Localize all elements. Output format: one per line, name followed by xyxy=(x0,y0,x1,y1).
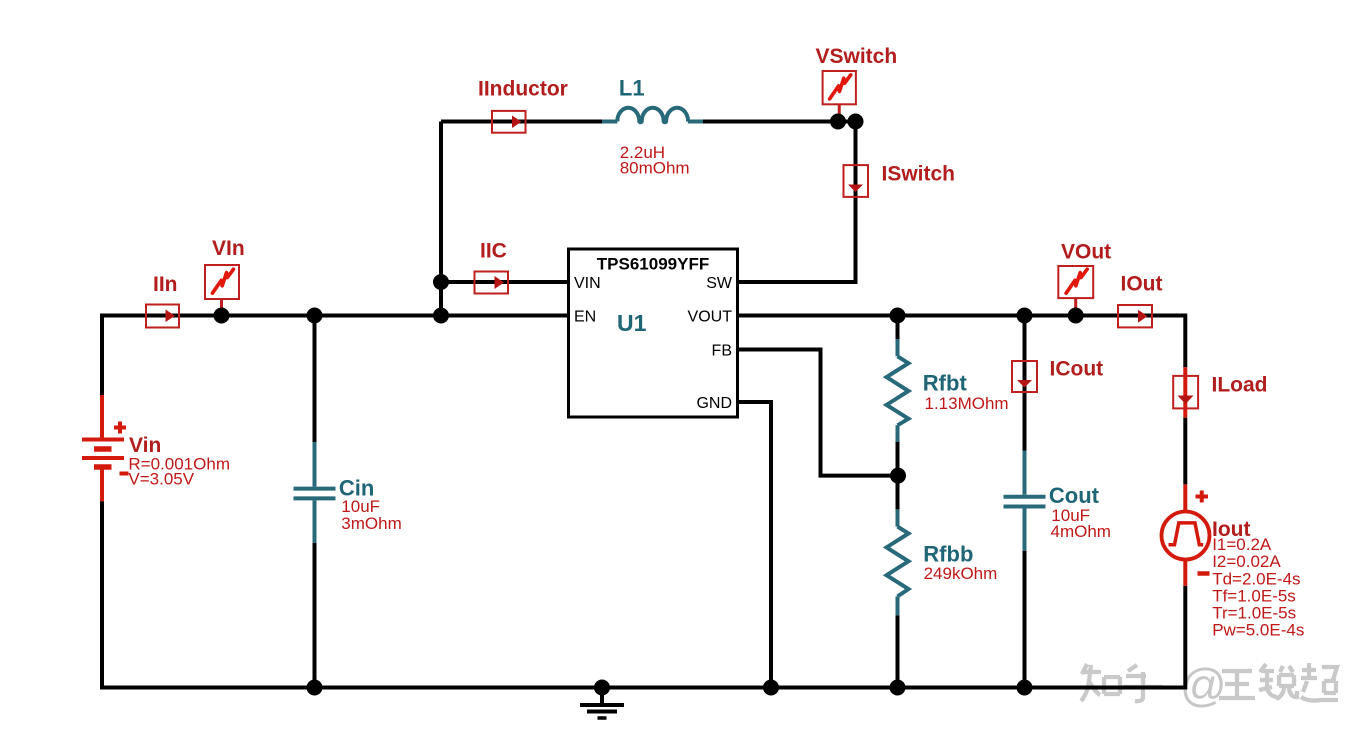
svg-text:ILoad: ILoad xyxy=(1212,374,1268,397)
capacitor Cout teal leads xyxy=(1023,451,1027,552)
wire: Rfbb leads black xyxy=(896,476,900,688)
probe IInductor box xyxy=(492,111,526,133)
capacitor Cin plates xyxy=(294,489,336,499)
wire: load branch mid segment xyxy=(1183,418,1187,485)
current source Iout circle xyxy=(1162,512,1210,560)
probe VIn box xyxy=(205,265,239,299)
svg-text:IOut: IOut xyxy=(1121,273,1163,296)
probe IIn arrow xyxy=(166,310,176,323)
capacitor Cout plates xyxy=(1004,497,1046,507)
probe ILoad arrow head xyxy=(1178,396,1194,405)
svg-text:4mOhm: 4mOhm xyxy=(1051,522,1111,541)
svg-text:FB: FB xyxy=(712,343,732,360)
probe VOut stub xyxy=(1074,298,1077,315)
Iout plus sign xyxy=(1196,491,1209,503)
probe IOut box xyxy=(1118,305,1152,327)
wire: VOUT rail to load corner xyxy=(738,316,1186,368)
svg-text:IInductor: IInductor xyxy=(478,78,568,101)
node Cout bottom xyxy=(1017,680,1033,696)
current source Iout pulse symbol xyxy=(1169,523,1204,545)
probe VIn icon xyxy=(212,269,233,293)
node GND return xyxy=(763,680,779,696)
probe IOut arrow xyxy=(1138,310,1148,323)
probe VOut box xyxy=(1058,266,1093,298)
svg-text:ISwitch: ISwitch xyxy=(882,163,956,186)
svg-text:IIn: IIn xyxy=(153,273,178,296)
probe ILoad red wire segment xyxy=(1183,367,1187,417)
node VOut tap xyxy=(1068,308,1084,324)
probe ICout arrow xyxy=(1017,380,1032,388)
resistor Rfbt leads xyxy=(896,339,900,442)
wire: VIN branch through IIC xyxy=(441,280,569,284)
svg-text:80mOhm: 80mOhm xyxy=(620,159,690,178)
capacitor Cin teal leads xyxy=(313,442,317,543)
wire: top rail right + SW drop xyxy=(703,122,856,283)
wire: Cout branch black xyxy=(1023,316,1027,688)
node Cin top xyxy=(307,308,323,324)
svg-text:V=3.05V: V=3.05V xyxy=(128,470,194,489)
wire: GND pin to bottom rail xyxy=(738,402,772,688)
inductor L1 leads xyxy=(602,120,703,124)
node VSwitch tap xyxy=(830,114,846,130)
wire: vertical from inductor input down to EN rail xyxy=(439,122,443,316)
battery minus sign xyxy=(120,472,129,476)
svg-text:Rfbb: Rfbb xyxy=(923,542,973,567)
wire: FB to feedback node xyxy=(738,350,899,476)
svg-text:VOUT: VOUT xyxy=(688,309,733,326)
resistor Rfbb zigzag xyxy=(887,527,909,597)
probe IIn box xyxy=(146,305,179,328)
node Cout top xyxy=(1017,308,1033,324)
svg-text:U1: U1 xyxy=(617,310,647,336)
battery Vin plates xyxy=(82,440,124,468)
svg-text:1.13MOhm: 1.13MOhm xyxy=(925,394,1009,413)
current source Iout leads red xyxy=(1183,484,1187,585)
node VIn tap xyxy=(214,308,230,324)
inductor L1 coil xyxy=(617,108,688,123)
probe VSwitch stub xyxy=(838,104,841,121)
wire: top rail left segment xyxy=(441,120,602,124)
svg-text:Cout: Cout xyxy=(1049,483,1100,508)
probe ISwitch box xyxy=(844,165,869,197)
svg-text:I2=0.02A: I2=0.02A xyxy=(1212,552,1281,571)
svg-text:Pw=5.0E-4s: Pw=5.0E-4s xyxy=(1212,621,1304,640)
svg-text:249kOhm: 249kOhm xyxy=(924,564,998,583)
svg-text:L1: L1 xyxy=(619,76,645,101)
probe VOut icon xyxy=(1066,269,1087,293)
battery plus sign xyxy=(114,422,126,434)
node ground tap xyxy=(594,680,610,696)
resistor Rfbb leads xyxy=(896,509,900,615)
probe VSwitch box xyxy=(823,71,856,104)
node junction dots xyxy=(214,114,1084,696)
probe IIC box xyxy=(475,272,509,294)
ground xyxy=(580,688,624,719)
probe VIn stub xyxy=(220,299,223,316)
svg-text:3mOhm: 3mOhm xyxy=(341,514,401,533)
svg-text:VOut: VOut xyxy=(1061,241,1111,264)
wire: Rfbt leads black xyxy=(896,316,900,476)
svg-text:IIC: IIC xyxy=(480,240,507,263)
svg-text:Rfbt: Rfbt xyxy=(923,371,968,396)
node FB divider xyxy=(890,468,906,484)
svg-text:GND: GND xyxy=(696,395,732,412)
wire: bottom rail from battery negative to load return xyxy=(102,501,1185,687)
probe ISwitch arrow xyxy=(848,185,863,193)
svg-text:ICout: ICout xyxy=(1050,358,1104,381)
watermark 知乎 @王锐超 xyxy=(1081,659,1338,711)
node Cin bottom xyxy=(307,680,323,696)
svg-text:SW: SW xyxy=(706,275,733,292)
node EN rail xyxy=(433,308,449,324)
probe ICout box xyxy=(1012,361,1037,392)
svg-text:VIn: VIn xyxy=(212,237,245,260)
resistor Rfbt zigzag xyxy=(887,356,909,425)
node IIC branch xyxy=(433,274,449,290)
wire: Cin branch black xyxy=(313,316,317,688)
svg-text:VSwitch: VSwitch xyxy=(816,45,898,68)
battery Vin red leads xyxy=(100,395,104,501)
probe VSwitch icon xyxy=(830,75,851,99)
node Rfbb bottom xyxy=(890,680,906,696)
svg-text:TPS61099YFF: TPS61099YFF xyxy=(597,255,709,274)
svg-text:VIN: VIN xyxy=(574,275,601,292)
Iout minus sign xyxy=(1198,571,1210,576)
wire: input rail to EN and left drop to battery xyxy=(102,316,569,396)
probe ILoad box xyxy=(1173,376,1198,409)
node Rfbt top xyxy=(890,308,906,324)
node SW corner xyxy=(848,114,864,130)
svg-text:EN: EN xyxy=(574,309,596,326)
probe IIC arrow xyxy=(495,276,505,289)
probe IInductor arrow xyxy=(512,116,522,129)
op-amp U1 IC box TPS61099YFF xyxy=(569,249,738,417)
